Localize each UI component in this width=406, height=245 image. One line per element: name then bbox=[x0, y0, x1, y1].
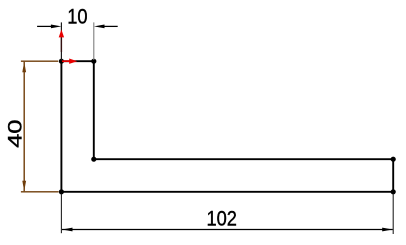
dimension 40 line bbox=[23, 62, 25, 191]
dimension 10 arrow right bbox=[94, 25, 105, 29]
dimension 40 extension line bottom bbox=[21, 191, 59, 193]
dimension 40 arrow down bbox=[22, 181, 26, 192]
dimension 102 extension line right bbox=[392, 194, 394, 234]
dimension 10 extension line left bbox=[60, 22, 62, 60]
dimension 102 arrow left bbox=[62, 228, 73, 232]
dimension 10 line left tail bbox=[37, 25, 52, 27]
vertex dot P1 top-left bbox=[59, 59, 64, 64]
vertex dot P2 top-right of leg bbox=[91, 59, 96, 64]
dimension 102 extension line left bbox=[60, 194, 62, 233]
vertex dot P3 inner corner bbox=[91, 157, 96, 162]
dimension 10 arrow left bbox=[51, 25, 62, 29]
dimension 10 line right tail bbox=[104, 25, 118, 27]
dimension 40 extension line top bbox=[21, 60, 58, 62]
origin arrow vertical red bbox=[60, 38, 62, 53]
dimension 10 extension line right bbox=[93, 22, 95, 60]
vertex dot P6 bottom-left bbox=[59, 189, 64, 194]
svg-text:40: 40 bbox=[4, 119, 25, 147]
svg-text:102: 102 bbox=[206, 207, 236, 231]
dimension 102 arrow right bbox=[382, 228, 393, 232]
dimension 40 arrow up bbox=[22, 62, 26, 73]
origin arrow horizontal red bbox=[62, 60, 70, 62]
dimension 102 line bbox=[62, 229, 393, 231]
vertex dot P5 right bottom bbox=[391, 189, 396, 194]
svg-text:10: 10 bbox=[67, 5, 87, 29]
profile outline L-shape bbox=[61, 61, 393, 192]
vertex dot P4 right top bbox=[391, 157, 396, 162]
